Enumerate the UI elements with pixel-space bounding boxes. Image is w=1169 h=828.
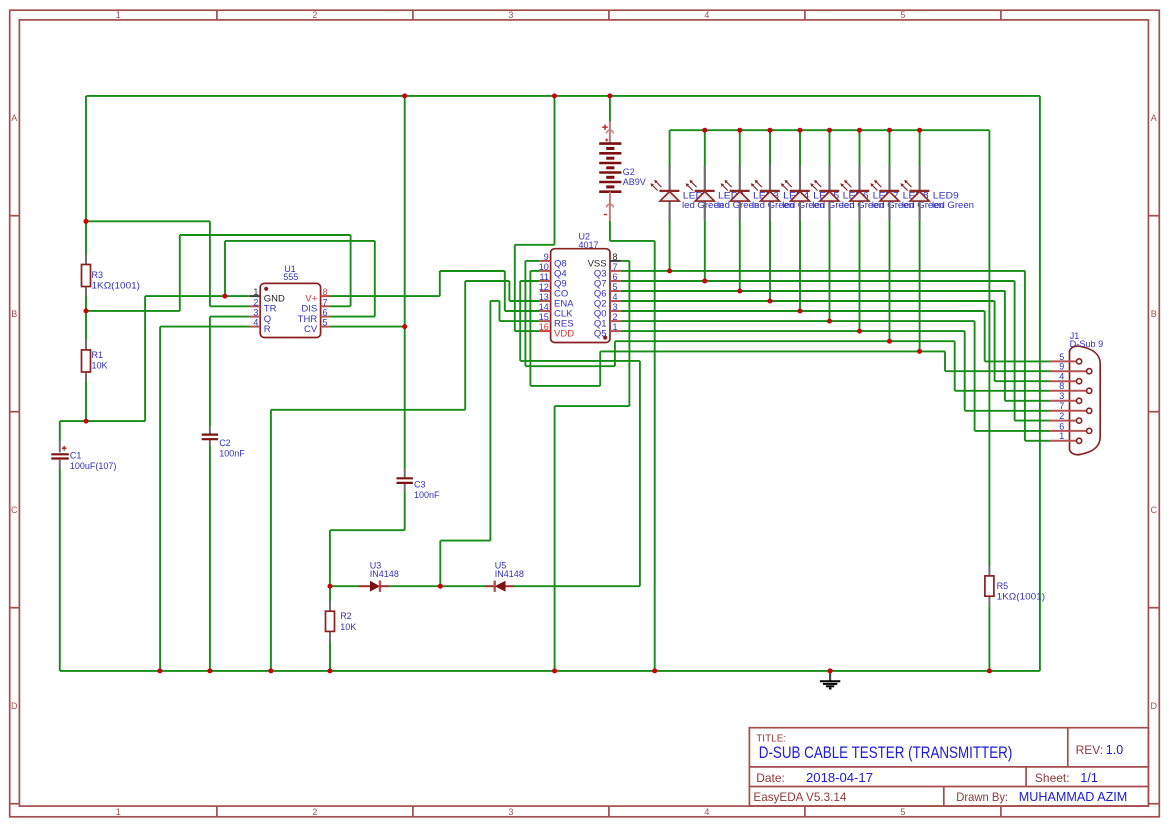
svg-text:4: 4 bbox=[613, 292, 618, 302]
wire U1 pin5 CV lead bbox=[329, 326, 405, 328]
wire C1 bottom to ground rail bbox=[59, 470, 61, 671]
U2 pin 6 Q7 bbox=[594, 272, 621, 289]
svg-text:10K: 10K bbox=[340, 622, 356, 632]
J1 pin 5 bbox=[1050, 352, 1082, 364]
svg-text:3: 3 bbox=[613, 302, 618, 312]
svg-text:3: 3 bbox=[508, 10, 513, 20]
svg-text:Q5: Q5 bbox=[594, 329, 607, 340]
U2 pin 3 Q0 bbox=[594, 302, 621, 319]
svg-text:R1: R1 bbox=[92, 350, 104, 360]
wire C2 bottom to ground rail bbox=[209, 446, 211, 671]
wire U2 Q3 row bbox=[621, 270, 1025, 272]
svg-text:C2: C2 bbox=[219, 438, 231, 448]
wire U2 pin15 RES lead bbox=[500, 320, 540, 322]
wire Q4 riser bbox=[599, 351, 601, 386]
J1 pin 6 bbox=[1050, 421, 1092, 433]
U1 pin 7 DIS bbox=[301, 297, 329, 314]
svg-text:5: 5 bbox=[323, 318, 328, 328]
wire GND row drop bbox=[144, 296, 146, 421]
wire V+ to CLK top horizontal bbox=[440, 270, 505, 272]
svg-text:3: 3 bbox=[253, 308, 258, 318]
svg-text:100nF: 100nF bbox=[219, 449, 245, 459]
wire U1 pin8 V+ lead bbox=[329, 295, 440, 297]
wire Q3 staircase drop bbox=[1024, 271, 1026, 441]
wire U1 pin6 THR lead bbox=[329, 316, 375, 318]
wire LED7 top column bbox=[859, 130, 861, 166]
wire DIS loop left vertical bbox=[179, 235, 181, 311]
LED9 green bbox=[900, 166, 974, 221]
svg-text:14: 14 bbox=[539, 302, 549, 312]
connector J1 D-Sub 9 shell bbox=[1070, 331, 1104, 455]
svg-text:16: 16 bbox=[539, 322, 549, 332]
U2 pin 10 Q4 bbox=[539, 262, 567, 279]
svg-text:5: 5 bbox=[900, 807, 905, 817]
U2 pin 16 VDD bbox=[539, 322, 574, 339]
wire THR loop vertical at GND junction bbox=[224, 241, 226, 296]
frame column numbers top bbox=[116, 10, 906, 20]
J1 pin 9 bbox=[1050, 362, 1092, 374]
J1 pin 7 bbox=[1050, 401, 1092, 413]
wire Q output drop to C2 bbox=[209, 317, 211, 427]
frame row letters left bbox=[11, 113, 18, 711]
svg-text:EasyEDA V5.3.14: EasyEDA V5.3.14 bbox=[753, 790, 846, 804]
svg-text:IN4148: IN4148 bbox=[495, 569, 524, 579]
wire Q2 staircase drop bbox=[994, 301, 996, 381]
LED4 green bbox=[751, 166, 825, 221]
wire Q8 riser bbox=[614, 341, 616, 366]
svg-text:2: 2 bbox=[312, 10, 317, 20]
svg-text:R: R bbox=[264, 324, 271, 335]
svg-text:6: 6 bbox=[323, 308, 328, 318]
wire J1 pin1 row bbox=[1025, 440, 1050, 442]
wire Q1 staircase drop bbox=[974, 321, 976, 431]
wire bottom ground rail bbox=[60, 670, 1040, 672]
LED6 green bbox=[810, 166, 884, 221]
svg-text:R2: R2 bbox=[340, 611, 352, 621]
svg-text:1KΩ(1001): 1KΩ(1001) bbox=[92, 280, 141, 290]
svg-text:100nF: 100nF bbox=[414, 490, 440, 500]
U1 pin 5 CV bbox=[304, 318, 329, 335]
wire C3 bottom segment bbox=[404, 492, 406, 531]
svg-text:C: C bbox=[11, 505, 18, 515]
wire LED7 bottom column bbox=[859, 221, 861, 331]
wire C3 column from top rail bbox=[404, 96, 406, 468]
wire Q4 staircase drop bbox=[944, 351, 946, 371]
wire U2 pin16 VDD lead bbox=[515, 330, 540, 332]
frame row ticks right bbox=[1148, 216, 1159, 804]
wire RES jog down bbox=[499, 301, 501, 321]
wire junction dots bbox=[84, 93, 992, 673]
resistor R5 bbox=[985, 566, 1045, 606]
svg-text:8: 8 bbox=[1059, 381, 1064, 391]
wire U2 pin11 Q9 lead bbox=[520, 280, 540, 282]
wire ENA ground drop bbox=[270, 410, 272, 671]
wire R reset drop to ground rail bbox=[159, 327, 161, 671]
LED3 green bbox=[721, 166, 795, 221]
wire RES jog horizontal low bbox=[440, 540, 490, 542]
U2 pin 7 Q3 bbox=[594, 262, 621, 279]
svg-text:A: A bbox=[1151, 113, 1157, 123]
LED1 green bbox=[650, 166, 724, 221]
resistor R3 bbox=[82, 255, 141, 297]
wire U2 Q2 row bbox=[621, 300, 995, 302]
svg-text:VDD: VDD bbox=[554, 329, 574, 340]
wire RES feed from diode node bbox=[439, 541, 441, 587]
U2 pin 8 VSS bbox=[588, 252, 621, 269]
wire diode row right segment bbox=[514, 585, 640, 587]
wire LED5 top column bbox=[799, 130, 801, 166]
U2 pin 13 ENA bbox=[539, 292, 574, 309]
wire Q8 drop bbox=[524, 261, 526, 366]
svg-text:9: 9 bbox=[544, 252, 549, 262]
wire THR loop top horizontal bbox=[225, 240, 375, 242]
U2 pin 15 RES bbox=[539, 312, 574, 329]
wire R3 bottom to R1 top bbox=[85, 296, 87, 340]
wire Q4 drop bbox=[529, 271, 531, 386]
wire U2 pin10 Q4 lead bbox=[530, 270, 539, 272]
capacitor C1 bbox=[51, 441, 116, 471]
svg-text:C: C bbox=[1151, 505, 1158, 515]
wire J1 pin6 row bbox=[975, 430, 1050, 432]
wire DIS loop from R3-R1 node bbox=[86, 310, 180, 312]
wire J1 pin5 row bbox=[985, 360, 1050, 362]
svg-text:5: 5 bbox=[613, 282, 618, 292]
wire LED4 top column bbox=[769, 130, 771, 166]
svg-text:7: 7 bbox=[1059, 401, 1064, 411]
wire diode row left segment bbox=[330, 585, 359, 587]
wire Q8 staircase drop bbox=[954, 341, 956, 391]
wire DIS loop top horizontal bbox=[180, 234, 351, 236]
frame row ticks left bbox=[10, 216, 20, 804]
wire top rail right drop to bottom rail bbox=[1039, 96, 1041, 671]
frame column ticks bottom bbox=[217, 806, 1001, 817]
wire LED9 top column bbox=[919, 130, 921, 166]
wire ENA feed horizontal upper bbox=[465, 280, 509, 282]
wire CLK drop bbox=[504, 271, 506, 311]
wire Q0 staircase drop bbox=[984, 311, 986, 361]
frame column ticks top bbox=[217, 10, 1001, 20]
wire LED5 bottom column bbox=[799, 221, 801, 311]
wire U2 pin13 ENA lead bbox=[509, 300, 539, 302]
wire battery negative horizontal bbox=[610, 240, 655, 242]
svg-text:9: 9 bbox=[1059, 362, 1064, 372]
wire U1 pin2 TR lead bbox=[210, 305, 250, 307]
wire node supply to TR jog horizontal bbox=[86, 220, 210, 222]
wire DIS loop right vertical bbox=[350, 235, 352, 306]
wire J1 pin4 row bbox=[995, 380, 1050, 382]
svg-text:2: 2 bbox=[253, 297, 258, 307]
svg-text:1KΩ(1001): 1KΩ(1001) bbox=[997, 592, 1046, 602]
wire VDD feed drop from top rail bbox=[554, 96, 556, 245]
LED2 green bbox=[686, 166, 760, 221]
svg-text:4: 4 bbox=[1059, 372, 1064, 382]
svg-text:B: B bbox=[1151, 309, 1157, 319]
svg-text:555: 555 bbox=[283, 272, 298, 282]
svg-text:100uF(107): 100uF(107) bbox=[70, 461, 117, 471]
frame row letters right bbox=[1151, 113, 1158, 711]
U1 pin 8 V+ bbox=[305, 287, 329, 304]
wire U2 pin14 CLK lead bbox=[505, 310, 540, 312]
svg-text:13: 13 bbox=[539, 292, 549, 302]
svg-text:D-Sub 9: D-Sub 9 bbox=[1070, 339, 1104, 349]
resistor R2 bbox=[326, 601, 357, 641]
ground bbox=[820, 671, 840, 689]
wire Q9 horizontal to diode branch bbox=[520, 360, 640, 362]
svg-text:1: 1 bbox=[253, 287, 258, 297]
wire LED8 top column bbox=[889, 130, 891, 166]
wire J1 pin7 row bbox=[965, 410, 1050, 412]
wire J1 pin3 row bbox=[1005, 400, 1050, 402]
U1 pin 6 THR bbox=[298, 308, 330, 325]
capacitor C2 bbox=[202, 427, 246, 459]
wire LED6 top column bbox=[829, 130, 831, 166]
svg-text:12: 12 bbox=[539, 282, 549, 292]
wire U1 pin1 GND row bbox=[145, 295, 250, 297]
svg-text:B: B bbox=[11, 309, 17, 319]
svg-text:G2: G2 bbox=[623, 167, 635, 177]
title block outline bbox=[749, 728, 1148, 806]
wire R2 top lead bbox=[329, 586, 331, 601]
svg-text:6: 6 bbox=[613, 272, 618, 282]
LED7 green bbox=[840, 166, 914, 221]
wire LED2 bottom column bbox=[704, 221, 706, 281]
wire Q5 staircase drop bbox=[964, 331, 966, 411]
J1 pin 8 bbox=[1050, 381, 1092, 393]
wire C1 top lead bbox=[59, 421, 61, 441]
wire LED1 bottom column bbox=[669, 221, 671, 271]
wire VDD feed horizontal bbox=[515, 244, 555, 246]
wire C1 top row bbox=[60, 420, 145, 422]
svg-text:6: 6 bbox=[1059, 421, 1064, 431]
battery G2 AB9V bbox=[599, 122, 646, 222]
wire Q7 staircase drop bbox=[1014, 281, 1016, 421]
wire R1 bottom to GND junction bbox=[85, 382, 87, 421]
U1 pin 3 Q bbox=[250, 308, 271, 325]
J1 pin 3 bbox=[1050, 391, 1082, 403]
svg-text:3: 3 bbox=[1059, 391, 1064, 401]
diode U5 IN4148 bbox=[486, 561, 524, 592]
U1 pin 4 R bbox=[250, 318, 271, 335]
U2 pin 1 Q5 bbox=[594, 322, 621, 339]
wire TR jog vertical bbox=[209, 221, 211, 306]
wire RES jog top horizontal bbox=[490, 300, 499, 302]
wire LED rail to R5 column bbox=[988, 130, 990, 566]
U2 pin 9 Q8 bbox=[540, 252, 567, 269]
svg-text:8: 8 bbox=[613, 252, 618, 262]
svg-text:1/1: 1/1 bbox=[1080, 771, 1097, 785]
svg-text:Drawn By:: Drawn By: bbox=[956, 790, 1008, 804]
svg-text:C3: C3 bbox=[414, 479, 426, 489]
svg-text:REV:: REV: bbox=[1076, 743, 1104, 757]
svg-text:11: 11 bbox=[539, 272, 548, 282]
LED8 green bbox=[870, 166, 944, 221]
wire C3 jog horizontal bbox=[330, 529, 405, 531]
wire Q4 row to LED9 and J1 bbox=[600, 350, 945, 352]
wire R5 bottom to ground rail bbox=[988, 606, 990, 671]
wire left supply column to R3 bbox=[85, 96, 87, 255]
LED5 green bbox=[781, 166, 855, 221]
svg-text:1: 1 bbox=[116, 10, 121, 20]
U2 pin 11 Q9 bbox=[539, 272, 566, 289]
svg-text:led Green: led Green bbox=[932, 200, 974, 210]
wire VSS drop bbox=[628, 261, 630, 406]
U2 pin 4 Q2 bbox=[594, 292, 621, 309]
op-amp U1 555 timer body bbox=[260, 264, 320, 338]
svg-text:1.0: 1.0 bbox=[1106, 743, 1123, 757]
wire Q6 staircase drop bbox=[1004, 291, 1006, 401]
J1 pin 1 bbox=[1050, 431, 1082, 443]
wire VDD feed vertical bbox=[514, 245, 516, 331]
wire Q9 drop to diode row bbox=[639, 361, 641, 586]
svg-text:Date:: Date: bbox=[756, 771, 785, 785]
wire J1 pin2 row bbox=[1015, 420, 1050, 422]
wire diode row middle segment bbox=[389, 585, 485, 587]
svg-text:MUHAMMAD AZIM: MUHAMMAD AZIM bbox=[1019, 790, 1127, 804]
svg-text:R3: R3 bbox=[92, 270, 104, 280]
svg-text:7: 7 bbox=[323, 297, 328, 307]
wire U2 Q0 row bbox=[621, 310, 985, 312]
wire LED9 bottom column bbox=[919, 221, 921, 351]
wire U2 pin8 VSS lead bbox=[621, 260, 630, 262]
wire ENA ground horizontal bbox=[271, 409, 465, 411]
wire Q8 row to LED8 and J1 bbox=[615, 340, 955, 342]
wire VSS to ground rail bbox=[554, 406, 556, 671]
svg-text:5: 5 bbox=[1059, 352, 1064, 362]
wire LED anode rail bbox=[670, 129, 990, 131]
svg-text:1: 1 bbox=[613, 322, 618, 332]
svg-text:10: 10 bbox=[539, 262, 549, 272]
U2 pin 12 CO bbox=[539, 282, 568, 299]
wire R2 bottom to ground rail bbox=[329, 641, 331, 671]
svg-text:15: 15 bbox=[539, 312, 549, 322]
wire battery negative down bbox=[609, 221, 611, 241]
wire Q4 under-chip horizontal bbox=[530, 385, 600, 387]
wire U2 Q1 row bbox=[621, 320, 975, 322]
svg-text:A: A bbox=[11, 113, 17, 123]
U2 pin 2 Q1 bbox=[594, 312, 621, 329]
svg-text:AB9V: AB9V bbox=[623, 177, 646, 187]
diode U3 IN4148 bbox=[359, 561, 399, 592]
svg-text:IN4148: IN4148 bbox=[370, 569, 399, 579]
wire THR loop right vertical bbox=[374, 241, 376, 317]
svg-text:2: 2 bbox=[312, 807, 317, 817]
svg-text:D: D bbox=[1151, 701, 1158, 711]
wire U2 Q7 row bbox=[621, 280, 1015, 282]
svg-text:1: 1 bbox=[1059, 431, 1064, 441]
svg-text:2: 2 bbox=[1059, 411, 1064, 421]
svg-text:4: 4 bbox=[704, 807, 709, 817]
wire battery positive to top rail bbox=[609, 96, 611, 122]
U2 pin 5 Q6 bbox=[594, 282, 621, 299]
svg-text:3: 3 bbox=[508, 807, 513, 817]
wire J1 pin8 row bbox=[955, 390, 1050, 392]
wire LED6 bottom column bbox=[829, 221, 831, 321]
svg-text:C1: C1 bbox=[70, 451, 82, 461]
svg-text:1: 1 bbox=[116, 807, 121, 817]
wire U2 pin9 Q8 lead bbox=[525, 260, 539, 262]
wire ENA jog vertical bbox=[508, 281, 510, 301]
wire LED8 bottom column bbox=[889, 221, 891, 341]
wire Q9 drop bbox=[519, 281, 521, 361]
wire Q8 under-chip horizontal bbox=[525, 365, 615, 367]
resistor R1 bbox=[82, 340, 108, 382]
wire U2 Q5 row bbox=[621, 330, 965, 332]
wire U1 pin7 DIS lead bbox=[329, 305, 350, 307]
svg-text:8: 8 bbox=[323, 287, 328, 297]
wire ENA drop long vertical bbox=[464, 281, 466, 410]
svg-text:10K: 10K bbox=[92, 360, 108, 370]
wire C3 jog down to diode row bbox=[329, 530, 331, 586]
wire LED3 top column bbox=[739, 130, 741, 166]
svg-text:5: 5 bbox=[900, 10, 905, 20]
wire V+ riser bbox=[439, 271, 441, 296]
capacitor C3 bbox=[397, 468, 441, 500]
wire battery negative to ground rail bbox=[654, 241, 656, 671]
U1 pin 1 GND bbox=[250, 287, 285, 304]
svg-text:D-SUB CABLE TESTER (TRANSMITTE: D-SUB CABLE TESTER (TRANSMITTER) bbox=[759, 743, 1013, 762]
wire +9V top rail bbox=[86, 95, 1040, 97]
IC U2 4017 body bbox=[551, 232, 610, 343]
svg-text:7: 7 bbox=[613, 262, 618, 272]
wire U1 pin4 R lead bbox=[160, 326, 250, 328]
J1 pin 2 bbox=[1050, 411, 1082, 423]
wire RES riser bbox=[489, 301, 491, 541]
wire J1 pin9 row bbox=[945, 370, 1050, 372]
svg-text:R5: R5 bbox=[997, 581, 1009, 591]
wire U1 pin3 Q lead bbox=[210, 316, 250, 318]
U2 pin 14 CLK bbox=[539, 302, 573, 319]
wire LED3 bottom column bbox=[739, 221, 741, 291]
svg-text:4: 4 bbox=[253, 318, 258, 328]
wire VSS horizontal bbox=[555, 405, 630, 407]
svg-text:2018-04-17: 2018-04-17 bbox=[806, 771, 873, 785]
svg-text:Sheet:: Sheet: bbox=[1035, 771, 1070, 785]
wire U2 Q6 row bbox=[621, 290, 1005, 292]
wire LED2 top column bbox=[704, 130, 706, 166]
svg-text:D: D bbox=[11, 701, 18, 711]
frame column numbers bottom bbox=[116, 807, 906, 817]
svg-text:2: 2 bbox=[613, 312, 618, 322]
wire LED1 top column bbox=[669, 130, 671, 166]
svg-text:4: 4 bbox=[704, 10, 709, 20]
U1 pin 2 TR bbox=[250, 297, 277, 314]
J1 pin 4 bbox=[1050, 372, 1082, 384]
svg-text:CV: CV bbox=[304, 324, 318, 335]
wire LED4 bottom column bbox=[769, 221, 771, 301]
svg-text:4017: 4017 bbox=[579, 240, 599, 250]
